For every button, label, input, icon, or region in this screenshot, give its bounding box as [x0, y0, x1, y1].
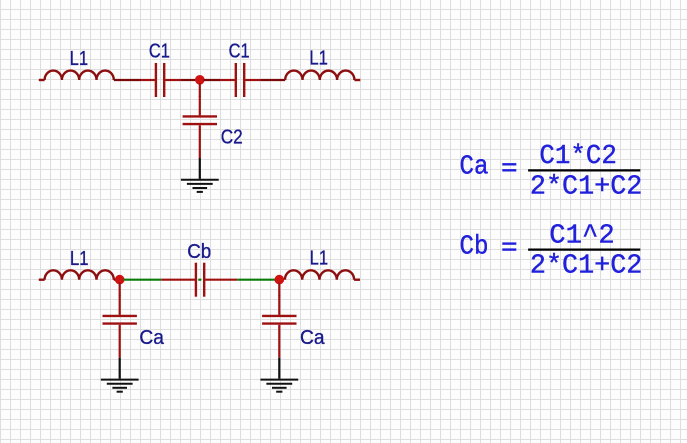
- capacitor Cb: [161, 263, 237, 297]
- svg-text:C1: C1: [229, 41, 250, 63]
- svg-text:Cb: Cb: [460, 231, 489, 261]
- ground bottom right: [260, 380, 298, 392]
- svg-text:C1: C1: [149, 40, 170, 62]
- svg-text:L1: L1: [70, 48, 89, 70]
- wire bottom: green wire mark under Cb: [198, 279, 201, 281]
- ground bottom left: [101, 380, 139, 392]
- svg-text:C1^2: C1^2: [549, 221, 615, 251]
- formula Cb fraction bar: [528, 249, 640, 251]
- svg-text:C1*C2: C1*C2: [539, 141, 617, 171]
- wire bottom: node B to Cb (green): [124, 279, 162, 281]
- wire bottom: node B down to Ca: [119, 283, 121, 296]
- capacitor C1 (top left): [141, 63, 181, 97]
- node A (junction dot): [195, 75, 205, 85]
- svg-text:L1: L1: [309, 48, 328, 70]
- svg-text:Ca: Ca: [460, 152, 489, 182]
- inductor L1 (bottom left): [39, 270, 114, 279]
- inductor L1 (bottom right): [285, 270, 360, 279]
- wire top: L1 to C1: [114, 79, 141, 81]
- svg-text:L1: L1: [310, 248, 329, 270]
- svg-text:Ca: Ca: [300, 327, 325, 349]
- svg-text:L1: L1: [70, 248, 89, 270]
- formula Cb equals sign: [502, 242, 516, 250]
- wire top: C2 to ground (black): [199, 158, 201, 179]
- svg-text:2*C1+C2: 2*C1+C2: [530, 171, 643, 201]
- svg-text:2*C1+C2: 2*C1+C2: [530, 251, 643, 281]
- node C (junction dot): [275, 275, 285, 285]
- wire top: C1 to node A: [181, 79, 196, 81]
- wire top: node A to C1 right: [204, 79, 221, 81]
- wire bottom: Ca right to ground (black): [278, 358, 280, 379]
- svg-text:Cb: Cb: [187, 241, 211, 263]
- node B (junction dot): [115, 275, 125, 285]
- wire top: C1 to L1 right: [260, 79, 285, 81]
- wire bottom: L1 to node B: [114, 279, 117, 281]
- ground top: [181, 180, 219, 192]
- capacitor C2: [183, 96, 217, 158]
- wire bottom: node C down to Ca: [278, 283, 280, 296]
- svg-text:Ca: Ca: [139, 327, 164, 349]
- wire bottom: Cb to node C (green): [237, 279, 275, 281]
- formula Ca fraction bar: [528, 169, 640, 171]
- wire top: node A down to C2: [199, 83, 201, 97]
- capacitor Ca (right): [262, 295, 296, 358]
- inductor L1 (top right): [285, 71, 360, 80]
- svg-text:C2: C2: [221, 126, 243, 148]
- capacitor Ca (left): [103, 295, 137, 358]
- inductor L1 (top left): [39, 71, 114, 80]
- wire bottom: Ca left to ground (black): [119, 358, 121, 379]
- formula Ca equals sign: [502, 163, 516, 171]
- capacitor C1 (top right): [220, 63, 260, 97]
